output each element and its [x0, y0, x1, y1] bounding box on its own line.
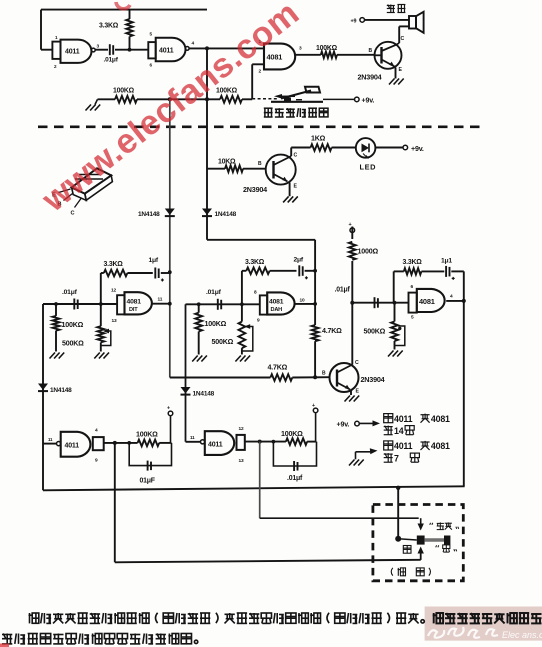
svg-text:4081: 4081: [267, 53, 283, 62]
svg-text:100KΩ: 100KΩ: [281, 430, 303, 438]
svg-text:B: B: [322, 371, 326, 377]
svg-text:DIT: DIT: [129, 307, 138, 313]
svg-text:1N4148: 1N4148: [138, 211, 160, 218]
svg-text:11: 11: [158, 297, 163, 303]
svg-text:B: B: [369, 48, 373, 54]
svg-text:+9v.: +9v.: [362, 97, 375, 105]
svg-text:4011: 4011: [65, 443, 80, 450]
svg-text:10KΩ: 10KΩ: [218, 159, 236, 166]
svg-text:11: 11: [190, 435, 195, 440]
svg-text:100KΩ: 100KΩ: [113, 88, 135, 95]
svg-text:1N4148: 1N4148: [50, 387, 72, 394]
svg-text:1μf: 1μf: [149, 257, 159, 264]
svg-text:.01μf: .01μf: [62, 289, 78, 296]
svg-text:4011: 4011: [394, 414, 413, 424]
svg-text:100KΩ: 100KΩ: [316, 45, 338, 52]
svg-text:100KΩ: 100KΩ: [62, 321, 84, 329]
svg-text:100KΩ: 100KΩ: [136, 431, 158, 439]
svg-text:B: B: [258, 161, 262, 167]
svg-text:+9v.: +9v.: [337, 421, 350, 429]
svg-text:4.7KΩ: 4.7KΩ: [268, 364, 288, 372]
svg-text:10: 10: [300, 298, 305, 304]
svg-text:+9v.: +9v.: [411, 145, 424, 153]
svg-text:4011: 4011: [159, 48, 174, 55]
svg-text:.01μf: .01μf: [287, 475, 303, 482]
svg-text:12: 12: [111, 288, 116, 294]
svg-text:4081: 4081: [127, 299, 142, 306]
svg-text:4081: 4081: [419, 297, 435, 306]
svg-text:12: 12: [239, 426, 244, 432]
svg-text:3.3KΩ: 3.3KΩ: [403, 259, 423, 266]
svg-text:3.3KΩ: 3.3KΩ: [99, 23, 119, 30]
svg-text:+: +: [167, 406, 170, 412]
svg-text:1N4148: 1N4148: [215, 211, 237, 218]
svg-text:3.3KΩ: 3.3KΩ: [245, 259, 265, 266]
svg-text:3.3KΩ: 3.3KΩ: [104, 261, 124, 268]
svg-text:500KΩ: 500KΩ: [364, 328, 386, 336]
svg-text:DAH: DAH: [271, 307, 283, 313]
svg-text:+: +: [312, 403, 315, 409]
svg-text:13: 13: [112, 318, 117, 324]
svg-text:C: C: [294, 153, 298, 159]
svg-text:LED: LED: [360, 163, 377, 172]
svg-text:C: C: [355, 360, 359, 366]
svg-text:4011: 4011: [65, 49, 80, 56]
svg-text:4081: 4081: [431, 414, 450, 424]
svg-text:+9: +9: [351, 19, 357, 25]
svg-text:4011: 4011: [208, 442, 223, 449]
svg-text:4011: 4011: [394, 441, 413, 451]
svg-text:4.7KΩ: 4.7KΩ: [322, 327, 342, 335]
svg-text:C: C: [71, 211, 75, 217]
svg-text:1000Ω: 1000Ω: [358, 248, 379, 256]
svg-text:+: +: [349, 222, 352, 228]
svg-text:.01μf: .01μf: [104, 57, 119, 64]
svg-text:.01μf: .01μf: [206, 289, 222, 296]
svg-text:1μ1: 1μ1: [441, 258, 452, 265]
svg-text:2N3904: 2N3904: [243, 185, 267, 194]
svg-text:500KΩ: 500KΩ: [62, 340, 84, 348]
svg-text:13: 13: [239, 458, 244, 464]
svg-text:1KΩ: 1KΩ: [311, 135, 326, 143]
svg-text:11: 11: [48, 437, 53, 442]
svg-text:500KΩ: 500KΩ: [212, 338, 234, 346]
svg-text:2N3904: 2N3904: [361, 375, 385, 384]
svg-text:.01μf: .01μf: [335, 287, 351, 294]
svg-text:14: 14: [394, 426, 404, 436]
svg-text:2N3904: 2N3904: [358, 73, 382, 82]
svg-text:7: 7: [394, 453, 399, 463]
svg-text:01μF: 01μF: [140, 478, 155, 485]
svg-text:100KΩ: 100KΩ: [205, 320, 227, 328]
svg-text:Elec ans.co: Elec ans.co: [502, 630, 542, 640]
svg-text:4081: 4081: [431, 441, 450, 451]
svg-text:4081: 4081: [269, 299, 284, 306]
svg-text:1N4148: 1N4148: [193, 391, 215, 398]
svg-text:2μf: 2μf: [294, 257, 304, 264]
svg-text:C: C: [401, 36, 405, 42]
